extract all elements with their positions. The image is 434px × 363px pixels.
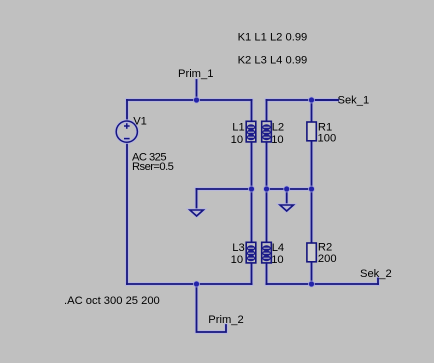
inductor L1: [246, 121, 256, 142]
voltage source V1: [116, 121, 137, 142]
svg-text:Prim_1: Prim_1: [178, 68, 213, 80]
svg-text:10: 10: [271, 134, 283, 146]
ground secondary halo: [280, 205, 293, 211]
svg-text:R2: R2: [318, 242, 332, 254]
svg-text:100: 100: [318, 133, 337, 145]
ground primary halo: [190, 210, 203, 216]
svg-text:10: 10: [231, 134, 243, 146]
wire halo pass: [127, 80, 378, 332]
voltage source V1 halo: [116, 121, 137, 142]
resistor R1: [307, 122, 316, 141]
ground primary: [190, 210, 203, 216]
svg-text:L3: L3: [232, 242, 244, 254]
inductor L3: [246, 242, 256, 263]
svg-text:200: 200: [318, 253, 337, 265]
svg-text:Prim_2: Prim_2: [208, 314, 243, 326]
svg-text:Rser=0.5: Rser=0.5: [132, 161, 174, 173]
svg-text:.AC oct 300 25 200: .AC oct 300 25 200: [64, 295, 160, 307]
svg-text:Sek_2: Sek_2: [360, 268, 392, 280]
svg-text:10: 10: [271, 254, 283, 266]
svg-text:10: 10: [231, 254, 243, 266]
svg-text:V1: V1: [133, 116, 147, 128]
svg-text:K2 L3 L4 0.99: K2 L3 L4 0.99: [238, 55, 308, 67]
node junction dots: [194, 97, 314, 286]
resistor R2: [307, 243, 316, 262]
svg-text:Sek_1: Sek_1: [338, 94, 370, 106]
inductor L2: [262, 121, 272, 142]
svg-text:K1 L1 L2 0.99: K1 L1 L2 0.99: [238, 31, 308, 43]
svg-text:L2: L2: [272, 121, 284, 133]
node junction dot halos: [193, 97, 315, 288]
wire core pass: [127, 80, 378, 332]
svg-text:L1: L1: [232, 121, 244, 133]
svg-text:L4: L4: [272, 242, 284, 254]
inductor L4: [262, 242, 272, 263]
ground secondary: [280, 205, 293, 211]
